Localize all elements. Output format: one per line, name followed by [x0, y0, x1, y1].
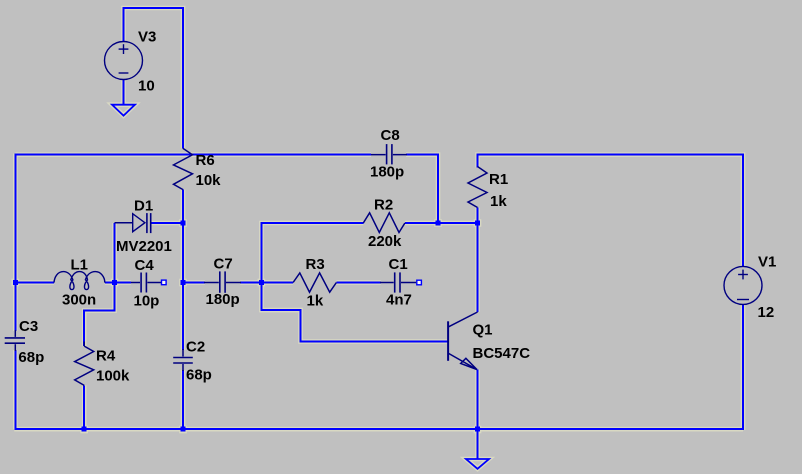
svg-text:C3: C3 — [19, 318, 38, 335]
svg-text:R3: R3 — [306, 256, 325, 273]
svg-text:10k: 10k — [196, 172, 222, 189]
svg-text:R2: R2 — [374, 197, 393, 214]
svg-text:C4: C4 — [135, 257, 155, 274]
svg-text:MV2201: MV2201 — [116, 238, 172, 255]
svg-text:Q1: Q1 — [473, 321, 493, 338]
svg-text:D1: D1 — [134, 198, 153, 215]
svg-text:L1: L1 — [71, 257, 89, 274]
svg-text:R4: R4 — [96, 348, 116, 365]
svg-text:10p: 10p — [134, 292, 160, 309]
svg-text:68p: 68p — [18, 349, 44, 366]
svg-text:R6: R6 — [196, 152, 215, 169]
svg-text:C2: C2 — [186, 339, 205, 356]
svg-text:180p: 180p — [206, 291, 240, 308]
svg-text:C8: C8 — [381, 127, 400, 144]
svg-text:180p: 180p — [370, 163, 404, 180]
svg-text:C1: C1 — [389, 256, 408, 273]
svg-text:10: 10 — [138, 78, 155, 95]
svg-text:R1: R1 — [489, 171, 508, 188]
svg-text:1k: 1k — [307, 293, 324, 310]
svg-text:300n: 300n — [62, 291, 96, 308]
svg-text:100k: 100k — [96, 368, 130, 385]
svg-text:BC547C: BC547C — [473, 345, 531, 362]
svg-text:68p: 68p — [186, 367, 212, 384]
svg-text:12: 12 — [758, 304, 775, 321]
svg-text:V3: V3 — [138, 29, 156, 46]
svg-text:C7: C7 — [214, 256, 233, 273]
svg-text:1k: 1k — [490, 193, 507, 210]
svg-text:V1: V1 — [758, 254, 776, 271]
svg-text:220k: 220k — [368, 233, 402, 250]
svg-text:4n7: 4n7 — [386, 292, 412, 309]
